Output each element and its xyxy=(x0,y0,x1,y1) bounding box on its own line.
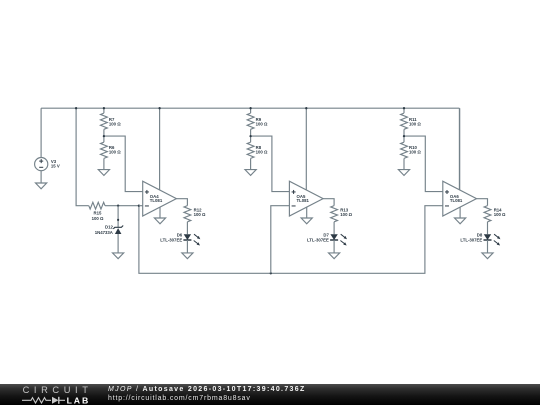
svg-text:LTL-307EE: LTL-307EE xyxy=(307,238,329,243)
resistor R6 100 ohm xyxy=(101,136,122,170)
ground (D7) xyxy=(329,253,340,259)
wire: D12 bottom lead xyxy=(117,234,119,253)
svg-text:100 Ω: 100 Ω xyxy=(256,149,268,154)
svg-text:100 Ω: 100 Ω xyxy=(256,121,268,126)
svg-text:LTL-307EE: LTL-307EE xyxy=(460,238,482,243)
logo resistor zigzag xyxy=(22,397,51,402)
svg-text:100 Ω: 100 Ω xyxy=(109,121,121,126)
node: junction on rail at x=76 xyxy=(75,107,77,109)
op-amp OA6 TL081 xyxy=(443,181,477,216)
node: junction OA5 V+ on rail xyxy=(305,107,307,109)
wire: OA6 V+ pin from rail xyxy=(459,108,461,190)
op-amp OA5 TL081 xyxy=(289,181,323,216)
wire: OA4 - input stub xyxy=(139,205,143,207)
CircuitLab logo: resistor + diode symbol and LAB xyxy=(19,395,99,405)
wire: R9/R8 junction to OA5 + input xyxy=(251,136,290,192)
logo diode xyxy=(52,397,59,404)
node: OA4 minus node xyxy=(138,205,140,207)
wire: top supply rail from V3 to OA6 V+ corner xyxy=(41,107,459,109)
wire: OA5 V+ pin from rail xyxy=(305,108,307,190)
svg-text:100 Ω: 100 Ω xyxy=(109,149,121,154)
svg-text:100 Ω: 100 Ω xyxy=(340,212,352,217)
wire: R15 right lead to reference node xyxy=(105,205,139,207)
ground (R10) xyxy=(398,170,409,176)
node: junction R9 top on rail xyxy=(249,107,251,109)
wire: D8 cathode to ground xyxy=(487,240,489,253)
wire: OA5 output to R13 xyxy=(323,199,334,206)
svg-text:LTL-307EE: LTL-307EE xyxy=(160,238,182,243)
footer text line 1 xyxy=(108,386,306,393)
node: junction R7 top on rail xyxy=(103,107,105,109)
node: R15 / D12 junction xyxy=(117,205,119,207)
svg-text:100 Ω: 100 Ω xyxy=(409,121,421,126)
svg-text:1N4733A: 1N4733A xyxy=(95,230,113,235)
node: divider junction R11/R10 xyxy=(403,135,405,137)
svg-text:100 Ω: 100 Ω xyxy=(194,212,206,217)
wire: D12 top lead xyxy=(117,206,119,228)
resistor R9 100 ohm xyxy=(247,108,268,136)
ground (R6) xyxy=(98,170,109,176)
resistor R8 100 ohm xyxy=(247,136,268,170)
ground (D12) xyxy=(113,253,124,259)
svg-text:R15: R15 xyxy=(94,211,102,216)
wire: OA4 V- pin to ground xyxy=(159,207,161,218)
ground (R8) xyxy=(245,170,256,176)
ground (OA5 V-) xyxy=(301,218,312,224)
resistor R11 100 ohm xyxy=(401,108,422,136)
LED D6 LTL-307EE xyxy=(160,233,200,246)
svg-text:TL081: TL081 xyxy=(450,198,463,203)
ground (D6) xyxy=(182,253,193,259)
wire: OA4 output to R12 xyxy=(176,199,187,206)
svg-text:TL081: TL081 xyxy=(150,198,163,203)
voltage source V3 15 V xyxy=(35,158,60,171)
svg-text:TL081: TL081 xyxy=(297,198,310,203)
zener diode D12 1N4733A xyxy=(95,225,123,235)
node: divider junction R7/R6 xyxy=(103,135,105,137)
wire: reference bus from OA4 - node to OA6 - input xyxy=(139,206,443,274)
svg-text:100 Ω: 100 Ω xyxy=(92,216,104,221)
footer text line 2 xyxy=(108,395,251,402)
wire: D6 cathode to ground xyxy=(186,240,188,253)
resistor R10 100 ohm xyxy=(401,136,422,170)
wire: OA6 V- pin to ground xyxy=(459,207,461,218)
wire: R11/R10 junction to OA6 + input xyxy=(404,136,443,192)
resistor R14 100 ohm xyxy=(484,206,506,235)
resistor R12 100 ohm xyxy=(184,206,206,235)
node: small dot on D12 lead xyxy=(117,219,119,221)
wire: OA6 output to R14 xyxy=(477,199,488,206)
svg-text:15 V: 15 V xyxy=(51,163,60,168)
resistor R7 100 ohm xyxy=(101,108,122,136)
wire: V3 bottom lead xyxy=(40,171,42,183)
ground (D8) xyxy=(482,253,493,259)
node: divider junction R9/R8 xyxy=(249,135,251,137)
resistor R15 100 ohm (horizontal) xyxy=(89,202,105,221)
wire: D7 cathode to ground xyxy=(333,240,335,253)
wire: V3 top lead to rail xyxy=(40,108,42,157)
ground (OA6 V-) xyxy=(455,218,466,224)
LED D7 LTL-307EE xyxy=(307,233,347,246)
wire: OA4 V+ pin from rail xyxy=(159,108,161,190)
svg-text:100 Ω: 100 Ω xyxy=(409,149,421,154)
node: junction R11 top on rail xyxy=(403,107,405,109)
svg-text:LAB: LAB xyxy=(67,395,91,404)
ground (OA4 V-) xyxy=(154,218,165,224)
op-amp OA4 TL081 xyxy=(143,181,177,216)
resistor R13 100 ohm xyxy=(331,206,353,235)
wire: bus branch up to OA5 - input xyxy=(271,206,290,274)
wire: supply drop to R15 (vertical at x=76) xyxy=(76,108,89,206)
node: bus junction for OA5 xyxy=(270,272,272,274)
ground (V3) xyxy=(36,183,47,189)
node: junction OA4 V+ on rail xyxy=(158,107,160,109)
CircuitLab logo: CIRCUIT wordmark xyxy=(23,386,103,394)
wire: OA5 V- pin to ground xyxy=(306,207,308,218)
wire: OA6 V+ drop (right end of rail turns down) xyxy=(458,108,460,190)
svg-text:100 Ω: 100 Ω xyxy=(494,212,506,217)
wire: R7/R6 junction to OA4 + input xyxy=(104,136,143,192)
LED D8 LTL-307EE xyxy=(460,233,500,246)
